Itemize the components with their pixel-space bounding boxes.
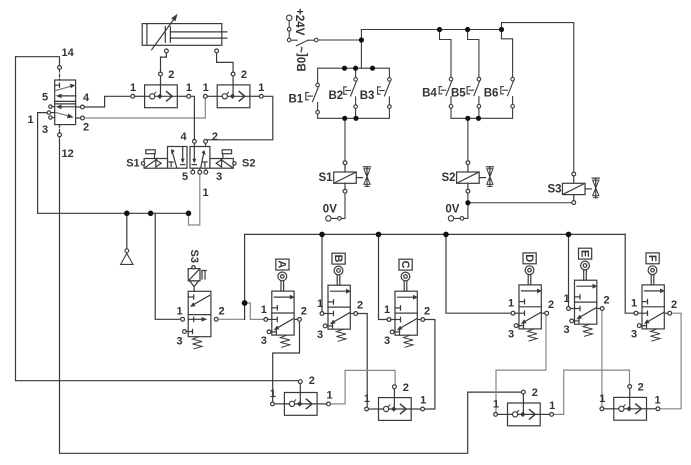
left valve port 3 — [49, 116, 52, 119]
wire left valve port 1 to supply bus — [38, 113, 48, 214]
svg-text:3: 3 — [216, 171, 222, 183]
wire FC1 right output to main valve port 4 — [191, 96, 195, 139]
main valve ports 5 1 3 — [191, 170, 195, 174]
svg-text:1: 1 — [564, 293, 570, 305]
svg-text:1: 1 — [261, 304, 267, 316]
wire OR1 output link to OR2 top port — [331, 370, 395, 404]
wire bus riser — [360, 30, 362, 69]
wire B1-B3 bottom rail — [318, 109, 390, 119]
svg-text:2: 2 — [168, 69, 174, 81]
limit switch B5 — [467, 77, 481, 108]
junction valve D branch — [443, 232, 449, 238]
svg-text:S1: S1 — [319, 172, 334, 184]
junction S2 0V / S3 — [465, 200, 470, 205]
wire cylinder left port to FC1 top — [161, 53, 167, 72]
left valve port 1 — [47, 111, 50, 114]
svg-text:1: 1 — [599, 393, 605, 405]
svg-text:A: A — [276, 260, 288, 268]
main valve port 2 — [204, 140, 208, 144]
svg-text:1: 1 — [508, 298, 514, 310]
wire valve F port 2 to OR4 right input — [659, 313, 681, 409]
wire supply bus jog to main valve port 1 — [189, 174, 200, 225]
svg-text:1: 1 — [270, 388, 276, 400]
svg-text:0V: 0V — [323, 204, 337, 216]
wire bus to valve B port 1 — [321, 234, 323, 311]
pilot port 12 — [58, 133, 62, 137]
shuttle valve FC2 (cylinder right line) — [203, 72, 263, 108]
shuttle valve FC1 (cylinder left line) — [131, 72, 191, 108]
wire supply bus to valve S3 port 1 — [155, 213, 181, 319]
wire left valve port 4 to FC1 left input — [84, 96, 131, 107]
svg-text:S2: S2 — [442, 172, 456, 184]
svg-text:1: 1 — [327, 389, 333, 401]
svg-text:1: 1 — [420, 395, 426, 407]
wire rail to relay S1 — [344, 118, 346, 161]
svg-text:S3: S3 — [548, 183, 562, 195]
S3 valve port 1 — [181, 317, 185, 321]
wire valve B port 2 to OR2 left input — [358, 314, 367, 408]
wire relay S3 bottom to S2 junction — [468, 202, 572, 204]
left valve port 2 — [81, 116, 85, 120]
wire bus step to relay S3 — [502, 23, 574, 173]
svg-text:14: 14 — [62, 47, 75, 59]
svg-text:2: 2 — [83, 122, 89, 134]
svg-text:3: 3 — [177, 336, 183, 348]
limit switch B4 — [439, 77, 453, 108]
solenoid 3/2 valve S3 (pneumatic) — [181, 266, 218, 349]
wire pilot 14 feedback: OR1 output to left valve port 14 — [16, 57, 299, 381]
junction air source — [124, 211, 130, 217]
svg-text:2: 2 — [604, 295, 610, 307]
junction valve C branch — [376, 232, 382, 238]
junction S3 riser — [148, 211, 154, 217]
svg-text:1: 1 — [364, 393, 370, 405]
svg-text:+24V: +24V — [293, 8, 305, 36]
wire bus to valve F port 1 — [625, 234, 634, 313]
svg-text:2: 2 — [301, 305, 307, 317]
roller valve E — [567, 248, 605, 336]
svg-text:2: 2 — [219, 306, 225, 318]
svg-text:2: 2 — [548, 299, 554, 311]
wire bus step to B5 — [468, 30, 479, 78]
left cell internals — [170, 162, 172, 167]
wire B4-B6 bottom rail — [451, 108, 513, 118]
wire bus step to B4 — [440, 30, 452, 78]
svg-text:3: 3 — [317, 329, 323, 341]
svg-text:4: 4 — [83, 92, 90, 104]
wire supply bus — [38, 212, 189, 214]
svg-text:1: 1 — [493, 399, 499, 411]
svg-text:2: 2 — [357, 300, 363, 312]
svg-text:5: 5 — [42, 92, 48, 104]
svg-text:0V: 0V — [445, 204, 459, 216]
junction pneumatic supply/port1 — [186, 211, 192, 217]
limit switch B2 — [344, 78, 358, 109]
svg-text:2: 2 — [212, 131, 218, 143]
svg-text:5: 5 — [182, 171, 188, 183]
wire jog to valve A port 1 — [245, 303, 264, 319]
relay coil S3 — [562, 172, 599, 204]
svg-text:B4: B4 — [422, 88, 437, 100]
svg-text:F: F — [646, 255, 658, 262]
svg-text:2: 2 — [671, 299, 677, 311]
svg-text:B1: B1 — [289, 94, 304, 106]
svg-text:3: 3 — [564, 324, 570, 336]
wire rail to relay S2 — [467, 118, 469, 161]
wire bus to valve C port 1 — [379, 234, 388, 319]
wire valve S3 port 2 to roller bus riser — [218, 318, 245, 320]
wire valve A port 2 to OR1 left input — [273, 321, 300, 402]
junction B0/bus — [359, 37, 364, 42]
svg-text:1: 1 — [28, 114, 34, 126]
relay coil S1 — [334, 161, 371, 193]
cylinder (double acting) — [142, 14, 227, 53]
wire main valve port 2 to FC2 right input — [207, 96, 272, 140]
wire pilot 12 feedback: OR3 output to left valve port 12 — [60, 137, 522, 454]
junction rail1 bottom dots — [342, 116, 347, 121]
svg-text:3: 3 — [508, 329, 514, 341]
switch B0 — [287, 38, 291, 42]
junction bus B4 — [437, 27, 442, 32]
svg-text:1: 1 — [186, 82, 192, 94]
svg-text:B5: B5 — [451, 88, 466, 100]
wire B0 to bus junction — [318, 39, 361, 41]
limit switch B3 — [378, 78, 392, 109]
roller valve C — [387, 259, 425, 347]
svg-text:2: 2 — [638, 381, 644, 393]
junction valve E branch — [566, 232, 572, 238]
svg-text:3: 3 — [261, 335, 267, 347]
wire OR3 right input link from OR4 output — [554, 370, 630, 414]
roller valve F — [634, 253, 672, 341]
wire bus to valve D port 1 — [446, 234, 511, 313]
S3 solenoid head — [188, 269, 200, 281]
solenoid S1 (left) — [144, 159, 167, 169]
svg-text:1: 1 — [203, 187, 209, 199]
limit switch B6 — [501, 77, 515, 108]
limit switch B1 — [306, 83, 320, 114]
junction rail2 bottom dots — [465, 116, 470, 121]
main 5/2 valve with solenoids S1 S2 — [141, 140, 236, 175]
wire relay S2 to 0V — [454, 193, 468, 218]
wire left valve port 2 to FC2 left input — [84, 98, 205, 118]
svg-text:1: 1 — [258, 82, 264, 94]
shuttle valve OR2 — [365, 385, 425, 421]
svg-text:B: B — [332, 255, 344, 263]
wire bus step to B6 — [502, 30, 513, 78]
shuttle valve OR1 — [271, 380, 331, 416]
svg-text:1: 1 — [317, 298, 323, 310]
svg-text:2: 2 — [309, 375, 315, 387]
svg-text:1: 1 — [384, 304, 390, 316]
air supply source — [121, 249, 133, 265]
wire valve D port 2 to OR3 left input — [496, 315, 546, 412]
svg-text:1: 1 — [549, 400, 555, 412]
wire valve E port 2 to OR4 left input — [601, 310, 603, 407]
wire supply bus to air source — [126, 213, 128, 249]
junction valve B branch — [319, 232, 325, 238]
shuttle valve OR3 — [494, 390, 554, 426]
right cell internals — [193, 147, 195, 161]
roller valve port labels A-F — [261, 293, 677, 347]
svg-text:1: 1 — [655, 394, 661, 406]
wire roller supply bus — [245, 233, 626, 235]
pilot port 14 — [58, 66, 62, 70]
junction rail1 dots — [342, 66, 347, 71]
svg-text:B3: B3 — [360, 90, 375, 102]
left pilot 5/2 valve (vertical) — [47, 66, 84, 137]
S3 valve port 2 — [214, 317, 218, 321]
left valve port 5 — [49, 105, 52, 108]
svg-text:C: C — [399, 261, 411, 269]
wire bus to valve E port 1 — [568, 234, 570, 306]
svg-text:3: 3 — [42, 124, 48, 136]
svg-text:4: 4 — [181, 131, 188, 143]
shuttle valve OR4 — [600, 385, 660, 421]
+24V terminal — [287, 15, 292, 20]
junction bus B5 — [465, 27, 470, 32]
left valve port 4 — [81, 105, 85, 109]
svg-text:2: 2 — [403, 382, 409, 394]
svg-text:S1: S1 — [126, 158, 139, 170]
svg-text:1: 1 — [177, 306, 183, 318]
svg-text:3: 3 — [384, 335, 390, 347]
svg-text:D: D — [523, 254, 535, 262]
svg-text:S2: S2 — [242, 158, 255, 170]
svg-text:S3: S3 — [188, 250, 200, 263]
wire valve C port 2 to OR2 right input — [425, 320, 435, 410]
wire relay S1 to 0V — [331, 193, 345, 218]
wire roller bus riser — [244, 234, 246, 319]
svg-text:E: E — [578, 250, 590, 257]
svg-text:3: 3 — [631, 329, 637, 341]
roller valve B — [320, 253, 358, 341]
junction valve A branch — [242, 300, 248, 306]
svg-text:2: 2 — [424, 306, 430, 318]
svg-text:12: 12 — [62, 148, 74, 160]
solenoid S2 (right) — [210, 159, 233, 169]
svg-text:B2: B2 — [329, 90, 344, 102]
wire cylinder right port to FC2 top — [217, 53, 234, 72]
svg-text:1: 1 — [203, 82, 209, 94]
junction bus B6/S3 — [499, 27, 504, 32]
svg-text:1: 1 — [130, 82, 136, 94]
svg-text:B6: B6 — [484, 88, 499, 100]
roller valve D — [511, 253, 549, 341]
svg-text:2: 2 — [241, 69, 247, 81]
svg-text:2: 2 — [532, 387, 538, 399]
wire +24V bus — [361, 29, 501, 31]
main valve port 4 — [193, 140, 197, 144]
roller valve A — [264, 259, 302, 347]
svg-text:1: 1 — [631, 298, 637, 310]
wire B1-B3 top rail — [318, 68, 390, 83]
svg-text:B0[~: B0[~ — [297, 46, 309, 72]
relay coil S2 — [457, 161, 494, 193]
